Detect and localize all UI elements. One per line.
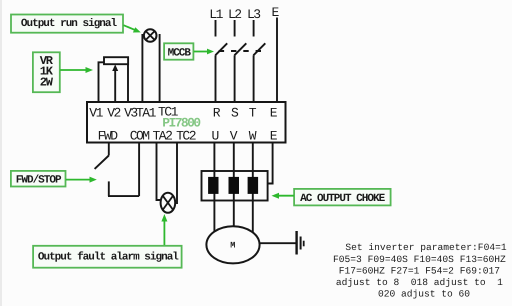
lamp HL1 run indicator — [144, 29, 157, 42]
svg-text:COM: COM — [130, 129, 150, 144]
svg-text:U: U — [212, 129, 219, 144]
arrow FWD/STOP to switch S1 — [66, 177, 97, 183]
switch S1 blade open — [95, 156, 109, 169]
svg-text:V1: V1 — [89, 106, 103, 121]
arrow Output run signal to lamp HL1 — [124, 25, 141, 32]
switch S1 lower contact stub — [108, 181, 110, 196]
wire up to COM terminal — [138, 143, 140, 197]
wire breaker pole 3 to T — [253, 55, 255, 102]
svg-text:adjust to 8 018 adjust to 1: adjust to 8 018 adjust to 1 — [336, 277, 503, 288]
wire potentiometer left end to V1 — [99, 62, 105, 102]
wire breaker pole 2 to S — [234, 55, 236, 102]
breaker Q1 pole 1 blade — [215, 43, 227, 55]
wire lamp HL1 to TA1 — [141, 34, 143, 102]
wire lamp HL1 to TC1 — [159, 34, 161, 102]
wire L1 to breaker pole 1 — [215, 20, 217, 37]
label box AC OUTPUT CHOKE — [294, 189, 391, 206]
wire E top to inverter E — [276, 18, 278, 103]
svg-text:Output fault alarm signal: Output fault alarm signal — [38, 250, 179, 263]
ground symbol — [297, 231, 304, 255]
wire E output to choke case — [268, 143, 273, 184]
breaker mechanical linkage dashed — [219, 50, 262, 52]
wire L2 to breaker pole 2 — [234, 20, 236, 37]
choke winding core V — [229, 177, 240, 194]
svg-text:V2: V2 — [107, 106, 120, 121]
wire V to motor — [233, 143, 235, 227]
wire L3 to breaker pole 3 — [253, 20, 255, 37]
label box VR 1K 2W — [33, 52, 60, 92]
wire motor to ground — [260, 242, 296, 244]
label box MCCB — [164, 43, 193, 59]
label box Output run signal — [11, 15, 123, 33]
arrow AC OUTPUT CHOKE to choke — [272, 193, 295, 199]
wire potentiometer right end to V3 — [127, 64, 129, 102]
wire U to motor — [213, 143, 215, 232]
svg-text:L2: L2 — [228, 7, 241, 22]
svg-text:L1: L1 — [209, 7, 223, 22]
arrow VR box to potentiometer — [60, 67, 93, 73]
svg-text:F05=3 F09=40S F10=40S F13=60HZ: F05=3 F09=40S F10=40S F13=60HZ — [333, 254, 506, 265]
svg-text:Set inverter parameter:F04=1: Set inverter parameter:F04=1 — [345, 242, 506, 253]
wire FWD terminal down — [108, 143, 110, 156]
svg-text:2W: 2W — [40, 75, 54, 89]
choke winding core U — [208, 177, 218, 194]
svg-text:F17=60HZ F27=1 F54=2 F69:017: F17=60HZ F27=1 F54=2 F69:017 — [339, 265, 500, 276]
lamp HL2 fault indicator — [161, 193, 176, 213]
wire switch S1 to COM horizontal — [108, 195, 139, 197]
svg-text:MCCB: MCCB — [168, 47, 192, 59]
svg-text:FWD: FWD — [98, 129, 119, 144]
wire breaker pole 1 to R — [215, 55, 217, 102]
svg-text:M: M — [230, 240, 235, 250]
wire W to motor — [252, 143, 254, 233]
svg-text:TC2: TC2 — [176, 129, 196, 144]
choke L1 box — [202, 171, 268, 201]
svg-text:Output run signal: Output run signal — [21, 18, 118, 30]
potentiometer RP rectangle — [104, 57, 128, 64]
label box FWD/STOP — [11, 171, 66, 187]
label box Output fault alarm signal — [33, 246, 182, 268]
svg-text:FWD/STOP: FWD/STOP — [16, 174, 62, 186]
wire TA2 terminal down to lamp HL2 — [157, 143, 162, 201]
note parameter settings text — [333, 242, 507, 299]
svg-text:TA1: TA1 — [136, 106, 157, 121]
svg-text:L3: L3 — [247, 7, 260, 22]
motor M — [206, 226, 259, 263]
breaker Q1 pole 2 blade — [234, 43, 246, 55]
arrow fault label to lamp HL2 — [161, 214, 167, 246]
left page edge artifact — [0, 0, 2, 306]
svg-text:020 adjust to 60: 020 adjust to 60 — [378, 289, 470, 300]
inverter U1 PI7800 main box — [87, 102, 286, 143]
wire TC2 terminal down to lamp HL2 — [176, 143, 178, 205]
breaker Q1 pole 3 blade — [253, 43, 265, 55]
arrow MCCB to breaker — [194, 49, 214, 55]
svg-text:TA2: TA2 — [153, 129, 173, 144]
svg-text:AC OUTPUT CHOKE: AC OUTPUT CHOKE — [300, 193, 385, 205]
choke winding core W — [248, 177, 259, 194]
potentiometer wiper arrow to V2 — [112, 64, 118, 102]
